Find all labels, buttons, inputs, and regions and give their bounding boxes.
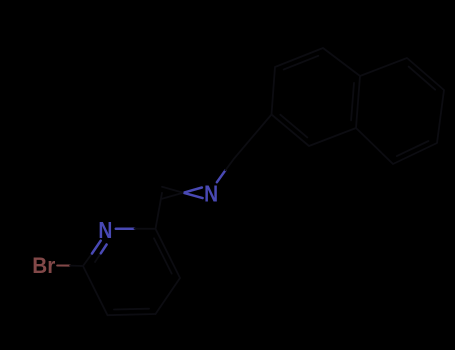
imine CH=N2 crossed line B dark half — [162, 187, 185, 193]
svg-text:Br: Br — [32, 253, 55, 278]
ring1 inner double line b — [351, 83, 354, 120]
svg-text:N: N — [204, 180, 218, 206]
svg-text:N: N — [98, 217, 112, 243]
bond C3-C4 — [156, 278, 181, 314]
ring2 inner double line b — [397, 141, 429, 156]
bond N1-C2 dark half — [135, 228, 156, 230]
bond C4=C5 inner line — [114, 308, 149, 311]
bond N2-C1 dark half — [225, 158, 234, 170]
imine CH=N2 crossed line B blue half — [185, 193, 203, 198]
imine CH=N2 crossed line A dark half — [162, 192, 185, 198]
bond C5-C6 — [83, 266, 108, 315]
bond C2=C3 inner line — [154, 238, 172, 273]
ring1 inner double line c — [280, 115, 307, 138]
bond C2-CH (to imine carbon) — [156, 193, 163, 229]
imine CH=N2 crossed line A blue half — [185, 188, 202, 193]
bond C1-ring1 (benzylic) — [234, 115, 271, 159]
bond N2-C1 blue half — [217, 170, 226, 182]
aryl ring 2 outline (fused) — [356, 58, 444, 164]
bond Br-C6 (maroon half) — [57, 264, 70, 266]
bond C4=C5 — [108, 314, 156, 315]
aryl ring 1 outline — [272, 48, 361, 146]
pyridine ring: bond C6=N1 outer dark half — [83, 254, 92, 267]
bond C6=N1 inner dark half — [95, 253, 101, 262]
bond Br-C6 (carbon half, dark) — [70, 265, 83, 267]
bond N1-C2 blue half — [116, 227, 135, 230]
bond C6=N1 inner blue half — [101, 245, 107, 254]
ring1 inner double line a — [284, 56, 319, 70]
bond C6=N1 outer blue half — [92, 241, 101, 254]
ring2 inner double line a — [409, 67, 436, 90]
bond C2=C3 — [156, 229, 181, 278]
